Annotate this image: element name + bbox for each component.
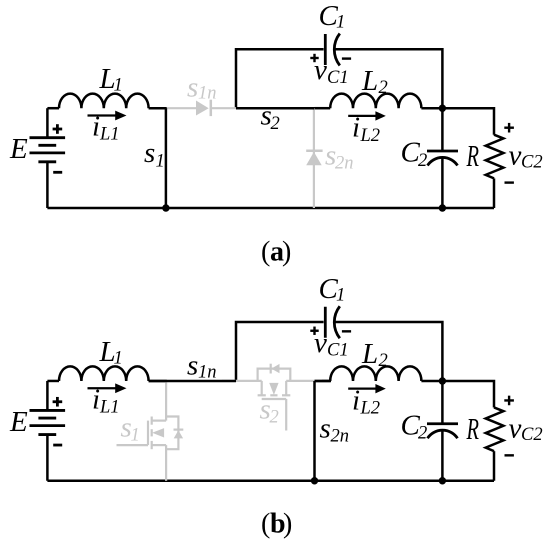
svg-text:1n: 1n bbox=[198, 363, 217, 383]
svg-text:s: s bbox=[187, 350, 198, 382]
svg-text:2: 2 bbox=[270, 408, 279, 428]
svg-text:1: 1 bbox=[131, 426, 140, 446]
svg-text:(: ( bbox=[261, 509, 270, 540]
svg-text:): ) bbox=[282, 237, 291, 268]
svg-text:(: ( bbox=[261, 237, 270, 268]
svg-text:2n: 2n bbox=[331, 427, 350, 447]
svg-text:s: s bbox=[320, 413, 331, 445]
svg-text:): ) bbox=[283, 509, 292, 540]
